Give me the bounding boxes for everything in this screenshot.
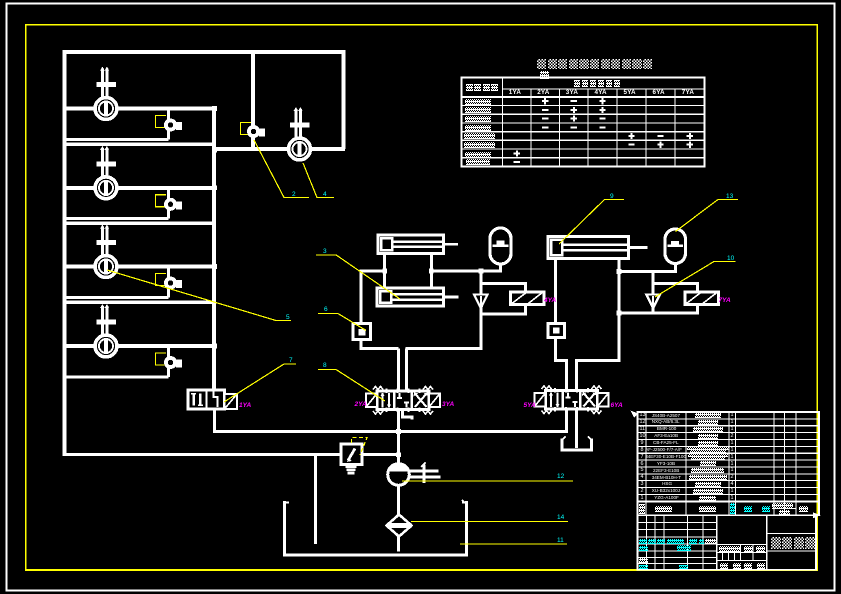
wire: row divider 2 <box>63 222 216 225</box>
BOM row 9 <box>641 441 644 446</box>
BOM row 3 <box>641 482 644 487</box>
title block <box>638 515 817 569</box>
设计 (cyan) <box>639 546 648 551</box>
pilot check / bypass valve with solenoid 4YA <box>474 284 544 315</box>
leader to accumulator A2 <box>676 200 739 232</box>
hydraulic motor M2 <box>95 146 117 199</box>
wire: motor M3 line <box>63 265 216 269</box>
part number cylinder C2 <box>323 249 327 256</box>
title 液压系统 <box>771 537 781 549</box>
relief valve RV1 <box>341 438 367 474</box>
wire: row divider 3 <box>63 301 216 304</box>
标准化 <box>639 558 648 563</box>
check valve V2 <box>156 195 182 210</box>
label 1YA <box>239 403 251 410</box>
check valve V1 <box>156 116 182 131</box>
wire: main drain line to 5YA valve <box>213 430 568 433</box>
part number valve 2YA/3YA <box>323 363 327 370</box>
wire: branch to 7YA valve <box>652 272 655 285</box>
small tank under 5YA valve <box>562 437 592 451</box>
BOM header 序号 <box>639 504 645 515</box>
leader to motor M5 <box>303 163 334 198</box>
drain stub under valve <box>403 410 413 420</box>
check valve V3 <box>156 274 182 289</box>
BOM row 6 <box>641 462 644 467</box>
wire: B-line to accumulator <box>431 270 500 273</box>
阶段标记 质量 比例 <box>719 546 740 552</box>
BOM top-left arrow <box>631 411 639 418</box>
wire: 7YA bottom line <box>618 312 655 315</box>
row label 3 <box>465 116 491 122</box>
wire: bypass branch down <box>480 271 483 285</box>
wire: 5YA valve P drop <box>565 409 568 433</box>
wire: cylinder pipe rod side <box>430 252 433 290</box>
row label 8 <box>466 159 490 165</box>
wire: left block bottom edge <box>63 453 316 456</box>
part number oil tank <box>557 538 564 545</box>
check valve V5 <box>241 123 265 137</box>
wire: rod corner <box>575 359 620 362</box>
wire: rod-end pipe down <box>618 257 621 362</box>
part number valve 1YA <box>289 358 293 365</box>
wire: pump suction <box>397 485 400 515</box>
directional valve 2YA/3YA (3-pos 4-way, double solenoid) <box>366 387 440 415</box>
table +/- marks <box>514 98 693 163</box>
wire: B-port drop <box>405 349 408 392</box>
label 5YA <box>524 403 536 410</box>
leader to pump P1 <box>402 480 573 482</box>
part number filter F1 <box>557 515 564 522</box>
BOM header 材料 (cyan) <box>744 506 752 512</box>
wire: top-right box left edge / M5 check stub <box>251 52 255 149</box>
row label 7 <box>465 152 491 158</box>
wire: motor M4 line <box>63 344 216 348</box>
BOM row 13 <box>640 413 646 418</box>
operation cycle table <box>462 78 705 167</box>
wire: valve A port riser <box>565 361 568 392</box>
hydraulic motor M1 <box>95 67 117 120</box>
wire: A-line connector <box>360 270 385 273</box>
BOM row 5 <box>641 468 644 473</box>
row label 2 <box>465 107 491 113</box>
BOM row 12 <box>640 420 646 425</box>
part number throttle T1 <box>324 307 328 314</box>
wire: top-right box right edge <box>342 50 346 149</box>
BOM row 10 <box>640 434 646 439</box>
hydraulic cylinder C1 (top) <box>378 235 458 254</box>
part number check valve V5 <box>292 192 296 199</box>
BOM header 代号 <box>655 506 672 512</box>
row 标记处数分区更改文件号签名年月日 (cyan) <box>639 539 647 544</box>
BOM row 2 <box>641 489 644 494</box>
wire: cap-end pipe down <box>554 257 557 325</box>
wire: 1YA valve drop to drain line <box>213 409 216 433</box>
hydraulic cylinder C3 (right) <box>548 237 648 259</box>
pilot check / bypass valve with solenoid 7YA <box>646 284 718 314</box>
header 操作名称 <box>466 84 473 91</box>
wire: return line row 4 <box>65 375 169 378</box>
accumulator A1 <box>490 228 511 264</box>
label 4YA <box>544 298 556 305</box>
part number cylinder C3 <box>610 194 614 201</box>
label 2YA <box>355 402 367 409</box>
hydraulic motor M5 <box>289 107 311 160</box>
wire: left block right bus <box>212 107 216 391</box>
filter F1 <box>387 515 412 537</box>
wire: A-line below throttle <box>360 339 363 350</box>
wire: return line row 2 <box>65 217 169 220</box>
wire: motor M5 line <box>213 147 345 151</box>
wire: B-port corner <box>406 347 483 350</box>
wire: relief valve branch line <box>316 453 399 456</box>
label 6YA <box>611 403 623 410</box>
table title 城市道路清扫车作业循环 <box>537 59 546 69</box>
BOM parts list table <box>638 412 820 515</box>
wire: valve B port riser <box>575 361 578 392</box>
wire: check valve V1 stub <box>167 109 170 140</box>
wire: A-port drop <box>397 349 400 392</box>
BOM header underline with arrow <box>637 514 818 516</box>
leader to cylinder C3 <box>559 200 624 245</box>
BOM row 7 <box>641 455 644 460</box>
共 张 第 张 <box>720 563 728 569</box>
wire: return line row 3 <box>65 296 169 299</box>
BOM header 备注 <box>799 506 808 512</box>
wire: left block left bus <box>62 52 66 455</box>
leader to motor M3 <box>107 270 291 321</box>
part number accumulator A2 <box>726 194 733 201</box>
wire: check valve V4 stub <box>167 346 170 377</box>
BOM row 4 <box>641 475 644 480</box>
wire: filter to tank <box>397 536 400 552</box>
label 7YA <box>719 298 731 305</box>
BOM header 数量 (cyan) <box>730 503 736 514</box>
row label 4 <box>465 125 491 131</box>
leader to oil tank <box>460 543 567 545</box>
leader to valve 2YA/3YA <box>318 370 385 402</box>
BOM row 8 <box>641 448 644 453</box>
leader to valve 1YA <box>224 364 296 402</box>
hydraulic motor M3 <box>95 225 117 278</box>
2/2 solenoid valve 1YA <box>188 390 237 409</box>
wire: pump pressure riser <box>397 410 400 465</box>
wire: A-line down <box>360 270 363 325</box>
wire: bypass valve drop <box>480 314 483 350</box>
pump P1 <box>388 463 441 486</box>
wire: row divider 1 <box>63 143 216 146</box>
throttle valve T2 <box>548 324 565 338</box>
drawing no (cyan) <box>677 545 691 551</box>
wire: check valve V2 stub <box>167 188 170 219</box>
row label 6 <box>464 142 495 148</box>
directional valve 5YA/6YA (3-pos 4-way, double solenoid) <box>535 386 609 414</box>
part number motor M3 <box>286 315 290 322</box>
leader to throttle T1 <box>318 314 366 331</box>
accumulator A2 <box>665 229 686 264</box>
wire: check valve V3 stub <box>167 267 170 298</box>
wire: motor M1 line <box>63 107 216 111</box>
label 3YA <box>442 402 454 409</box>
leader to filter F1 <box>411 521 568 523</box>
check valve V4 <box>156 353 182 368</box>
header 电磁铁动作表 <box>574 80 581 87</box>
hydraulic motor M4 <box>95 304 117 357</box>
wire: cylinder pipe cap side <box>383 252 386 290</box>
row label 1 <box>465 99 491 105</box>
part number valve 7YA <box>727 256 734 263</box>
hydraulic cylinder C2 (bottom) <box>377 288 459 306</box>
批准 (cyan) <box>679 565 688 570</box>
wire: return line row 1 <box>65 138 169 141</box>
leader to check valve V5 <box>254 140 309 198</box>
wire: A-line corner to valve <box>361 347 399 350</box>
wire: P drop from 2YA/3YA valve to pump <box>397 410 400 432</box>
wire: motor M2 line <box>63 186 216 190</box>
table title 表 <box>540 71 549 80</box>
wire: left block top edge <box>63 50 344 54</box>
wire: cap corner <box>554 359 568 362</box>
工艺 (cyan) <box>639 565 648 570</box>
wire: accumulator header <box>618 270 676 273</box>
throttle valve T1 <box>353 324 371 340</box>
leader to valve 7YA <box>655 262 736 298</box>
BOM row 1 <box>641 496 644 501</box>
main oil tank <box>285 500 467 555</box>
wire: accumulator A1 stem <box>499 263 502 273</box>
wire: accumulator A2 stem <box>674 262 677 273</box>
wire: cap pipe below throttle <box>554 337 557 362</box>
BOM row 11 <box>640 427 646 432</box>
leader to cylinder C2 <box>316 255 400 299</box>
wire: 5YA valve T drop <box>575 409 578 448</box>
BOM header 名称 <box>699 506 716 512</box>
row label 5 <box>464 133 495 139</box>
BOM header 单件/总计 重量 <box>772 503 793 509</box>
part number motor M5 <box>323 192 327 199</box>
wire: drain drop into tank <box>314 454 317 545</box>
part number pump P1 <box>557 474 564 481</box>
